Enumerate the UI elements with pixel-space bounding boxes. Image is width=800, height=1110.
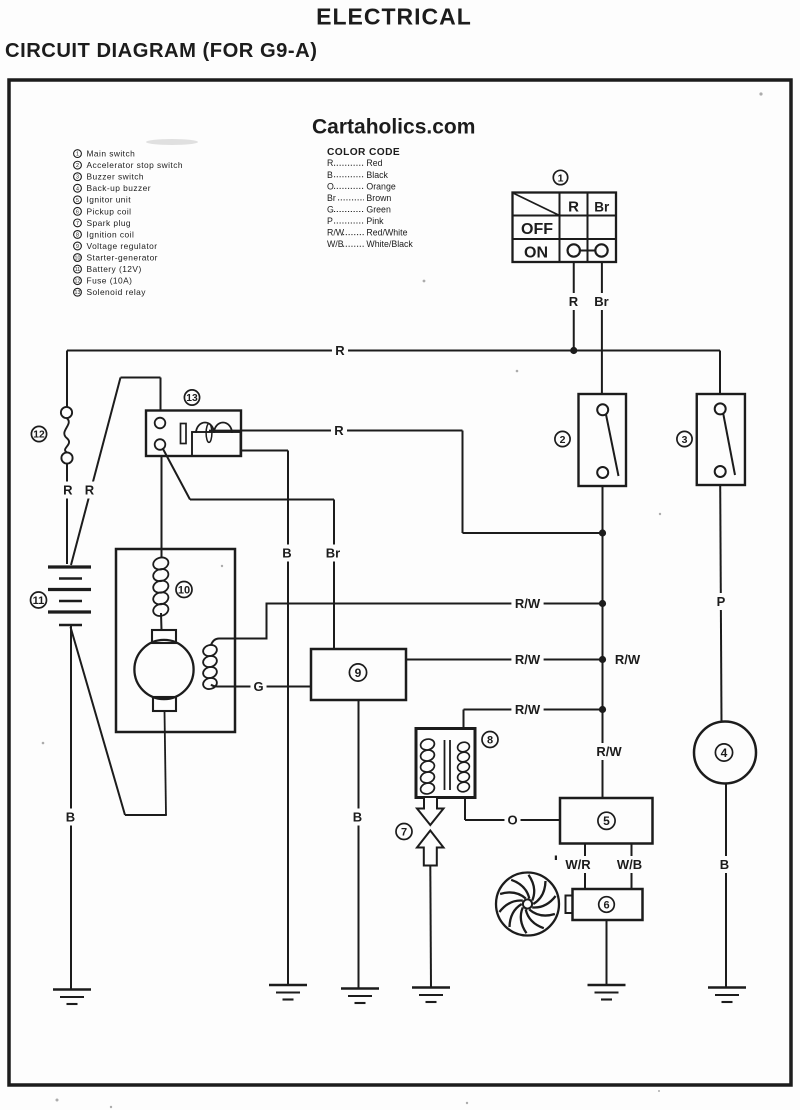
svg-text:Voltage regulator: Voltage regulator (87, 241, 158, 251)
svg-text:Ignitor unit: Ignitor unit (87, 195, 132, 205)
svg-text:CIRCUIT DIAGRAM (FOR G9-A): CIRCUIT DIAGRAM (FOR G9-A) (5, 40, 317, 62)
svg-text:Red/White: Red/White (366, 228, 407, 238)
svg-text:6: 6 (76, 209, 79, 215)
svg-text:R/W: R/W (515, 652, 541, 667)
svg-text:R: R (335, 343, 345, 358)
svg-text:W/B: W/B (617, 857, 642, 872)
svg-text:R: R (85, 483, 95, 498)
svg-text:Pink: Pink (366, 216, 384, 226)
svg-text:7: 7 (401, 826, 407, 838)
svg-text:13: 13 (186, 393, 198, 404)
svg-text:O: O (327, 181, 334, 191)
svg-text:10: 10 (75, 256, 81, 262)
svg-text:Br: Br (327, 193, 336, 203)
svg-text:B: B (353, 810, 362, 825)
svg-text:Spark plug: Spark plug (87, 218, 132, 228)
svg-text:Fuse (10A): Fuse (10A) (87, 276, 133, 286)
svg-text:Br: Br (326, 546, 340, 561)
svg-text:11: 11 (75, 267, 81, 273)
svg-text:COLOR CODE: COLOR CODE (327, 147, 400, 158)
svg-text:G: G (327, 204, 334, 214)
svg-text:Brown: Brown (366, 193, 391, 203)
svg-text:P: P (327, 216, 333, 226)
svg-text:13: 13 (75, 290, 81, 296)
svg-text:11: 11 (33, 595, 45, 607)
svg-text:R: R (63, 483, 73, 498)
svg-text:W/B: W/B (327, 239, 344, 249)
svg-text:Ignition coil: Ignition coil (87, 229, 135, 239)
svg-text:R: R (569, 294, 579, 309)
svg-text:O: O (507, 813, 517, 828)
svg-text:Black: Black (366, 170, 388, 180)
svg-text:9: 9 (76, 244, 79, 250)
svg-text:4: 4 (76, 186, 79, 192)
svg-text:R: R (327, 158, 333, 168)
svg-text:2: 2 (560, 434, 566, 446)
svg-text:12: 12 (75, 279, 81, 285)
svg-text:Br: Br (594, 294, 608, 309)
svg-text:Br: Br (594, 200, 610, 215)
svg-text:Accelerator stop switch: Accelerator stop switch (87, 160, 183, 170)
svg-text:Solenoid relay: Solenoid relay (87, 287, 147, 297)
svg-text:Main switch: Main switch (87, 149, 136, 159)
svg-text:R: R (334, 423, 344, 438)
svg-text:W/R: W/R (565, 857, 591, 872)
svg-text:P: P (717, 594, 726, 609)
svg-text:8: 8 (487, 734, 493, 746)
svg-text:G: G (253, 679, 263, 694)
svg-text:9: 9 (355, 666, 362, 680)
svg-text:B: B (282, 546, 291, 561)
svg-text:R/W: R/W (515, 702, 541, 717)
svg-text:5: 5 (603, 814, 610, 828)
svg-text:4: 4 (721, 746, 728, 760)
svg-text:Green: Green (366, 204, 391, 214)
svg-text:1: 1 (558, 172, 564, 184)
svg-text:Battery (12V): Battery (12V) (87, 264, 142, 274)
svg-text:Pickup coil: Pickup coil (87, 206, 132, 216)
svg-text:Starter-generator: Starter-generator (87, 252, 158, 262)
svg-text:R: R (568, 199, 579, 216)
svg-text:ON: ON (524, 245, 548, 262)
svg-text:Orange: Orange (366, 181, 395, 191)
svg-text:R/W: R/W (596, 744, 622, 759)
svg-text:B: B (327, 170, 333, 180)
svg-text:2: 2 (76, 163, 79, 169)
svg-text:3: 3 (682, 434, 688, 446)
svg-text:1: 1 (76, 152, 79, 158)
svg-text:12: 12 (33, 430, 45, 441)
svg-text:Red: Red (366, 158, 382, 168)
svg-text:6: 6 (603, 899, 609, 911)
svg-text:OFF: OFF (521, 221, 553, 238)
svg-text:Cartaholics.com: Cartaholics.com (312, 116, 475, 139)
svg-text:5: 5 (76, 198, 79, 204)
svg-text:R/W: R/W (327, 228, 345, 238)
svg-text:Back-up buzzer: Back-up buzzer (87, 183, 152, 193)
svg-text:ELECTRICAL: ELECTRICAL (316, 4, 472, 30)
svg-text:B: B (66, 810, 75, 825)
svg-text:R/W: R/W (615, 652, 641, 667)
svg-text:10: 10 (178, 584, 190, 596)
svg-text:8: 8 (76, 232, 79, 238)
svg-text:3: 3 (76, 175, 79, 181)
svg-text:R/W: R/W (515, 596, 541, 611)
svg-text:White/Black: White/Black (366, 239, 413, 249)
svg-text:7: 7 (76, 221, 79, 227)
svg-text:B: B (720, 857, 729, 872)
svg-text:Buzzer switch: Buzzer switch (87, 172, 145, 182)
